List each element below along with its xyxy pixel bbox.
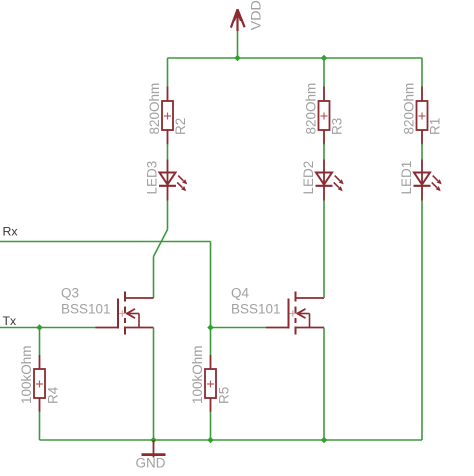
LED LED2 xyxy=(316,160,344,201)
wire R5 bottom xyxy=(210,412,212,441)
wire diagonal xyxy=(154,230,168,257)
svg-text:R2: R2 xyxy=(173,118,188,135)
ground GND xyxy=(142,440,166,458)
junction GND / bottom bus xyxy=(150,437,157,444)
resistor R3 xyxy=(319,87,330,145)
wire column C between R1 and LED1 xyxy=(421,144,423,160)
svg-text:GND: GND xyxy=(136,456,166,471)
junction at VDD / top bus xyxy=(234,55,241,62)
svg-text:Q3: Q3 xyxy=(61,286,79,301)
wire R4 bottom xyxy=(39,412,41,441)
svg-text:LED3: LED3 xyxy=(144,161,159,195)
wire Q4 source vertical xyxy=(323,328,325,441)
wire bottom bus xyxy=(40,439,423,441)
resistor R5 xyxy=(205,355,216,412)
svg-text:R5: R5 xyxy=(217,387,232,404)
resistor R1 xyxy=(417,87,428,145)
svg-text:820Ohm: 820Ohm xyxy=(304,83,319,135)
svg-text:100kOhm: 100kOhm xyxy=(19,345,34,404)
wire Rx vertical to R5 xyxy=(210,242,212,356)
svg-text:100kOhm: 100kOhm xyxy=(190,345,205,404)
svg-text:Rx: Rx xyxy=(3,225,19,239)
wire column B below LED2 xyxy=(323,201,325,299)
wire Q3 drain vertical xyxy=(153,257,155,299)
svg-text:VDD: VDD xyxy=(248,0,264,30)
wire column C upper xyxy=(421,58,423,87)
wire column A below LED3 xyxy=(167,201,169,230)
junction Tx / R4 xyxy=(36,324,43,331)
svg-text:Tx: Tx xyxy=(3,314,18,328)
svg-text:Q4: Q4 xyxy=(231,286,250,301)
wire column A upper xyxy=(167,58,169,87)
wire column A between R2 and LED3 xyxy=(167,144,169,160)
transistor Q3 xyxy=(96,292,154,335)
svg-text:BSS101: BSS101 xyxy=(231,302,281,317)
wire column C lower xyxy=(421,201,423,441)
LED LED1 xyxy=(414,160,442,201)
svg-text:LED2: LED2 xyxy=(301,161,316,195)
wire column B between R3 and LED2 xyxy=(323,144,325,160)
wire Rx xyxy=(0,241,211,243)
transistor Q4 xyxy=(266,292,324,335)
wire VDD stub xyxy=(237,30,239,58)
svg-text:R1: R1 xyxy=(428,118,443,135)
supply VDD xyxy=(231,9,245,31)
wire R4 top xyxy=(39,328,41,356)
wire Q4 gate xyxy=(211,327,267,329)
wire Tx xyxy=(0,327,96,329)
svg-text:R4: R4 xyxy=(46,386,61,404)
svg-text:820Ohm: 820Ohm xyxy=(402,83,417,135)
wire top bus VDD xyxy=(168,57,423,59)
LED LED3 xyxy=(159,160,187,201)
wire Q3 source vertical xyxy=(153,328,155,441)
svg-text:820Ohm: 820Ohm xyxy=(147,83,162,135)
svg-text:R3: R3 xyxy=(330,118,345,135)
wire column B upper xyxy=(323,58,325,87)
resistor R2 xyxy=(162,87,173,145)
svg-text:LED1: LED1 xyxy=(399,161,414,195)
svg-text:BSS101: BSS101 xyxy=(61,302,111,317)
junction R5 / bottom bus xyxy=(207,437,214,444)
junction at R3 column / top bus xyxy=(321,55,328,62)
junction Q4 source / bottom bus xyxy=(321,437,328,444)
junction Rx / Q4 gate xyxy=(207,324,214,331)
resistor R4 xyxy=(34,355,45,412)
